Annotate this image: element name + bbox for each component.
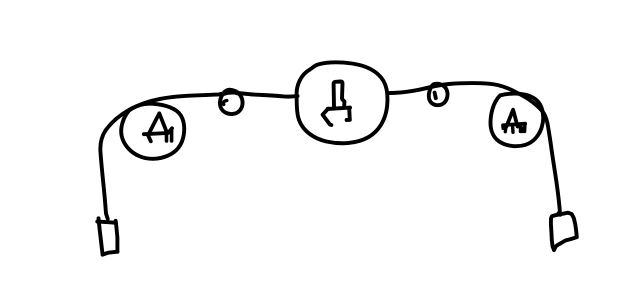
junction loop left (220, 90, 243, 114)
plug X2 (right): wire stub hook (558, 212, 560, 217)
wire: from motor circle to right junction (388, 88, 426, 93)
wire: from left junction to motor circle (254, 95, 298, 97)
ammeter A2 label: subscript 2 (520, 124, 525, 131)
ammeter A2 label: left tick below crossbar (504, 127, 508, 132)
junction loop right: inner tick (435, 93, 436, 99)
motor label Д: top narrow hat (334, 82, 345, 107)
ammeter A1 label: left-leg hook below crossbar (148, 135, 151, 141)
motor circle (297, 62, 388, 143)
plug X1 (left): right edge (116, 221, 118, 252)
wire: segment over left junction loop (220, 93, 255, 95)
junction loop right (429, 84, 448, 105)
ammeter A2 circle (490, 94, 543, 147)
plug X2 (right): body (551, 213, 577, 250)
ammeter A1 label: subscript tick 1 (165, 135, 169, 141)
ammeter A2 label: middle tick below crossbar (511, 127, 515, 133)
ammeter A1 label: letter A (148, 113, 167, 135)
ammeter A1 label: crossbar with right serif (144, 128, 172, 134)
wire: segment over right junction to A2 (426, 83, 516, 92)
ammeter A2 label: letter A (506, 110, 517, 127)
wire: left lead from plug X1 up over ammeter A1 to junction (100, 94, 219, 218)
wire: over A2 top-right arc down to plug X2 (516, 92, 561, 215)
plug X1 (left): left edge with top overshoot tick (99, 218, 103, 254)
ammeter A1 label: subscript tick 2 (170, 130, 174, 141)
junction loop left: inner curl (223, 101, 226, 105)
plug X1 (left): bottom edge with step (103, 252, 118, 255)
ammeter A2 label: crossbar with left serif (503, 124, 525, 129)
motor label Д: base bar (328, 108, 350, 109)
motor label Д: left leg with foot (323, 109, 332, 125)
motor label Д: right leg with foot (347, 108, 350, 120)
junction loop left: top overlap blob (225, 91, 238, 93)
plug X1 (left): top edge with left overshoot (97, 222, 115, 223)
ammeter A1 circle (121, 104, 184, 159)
